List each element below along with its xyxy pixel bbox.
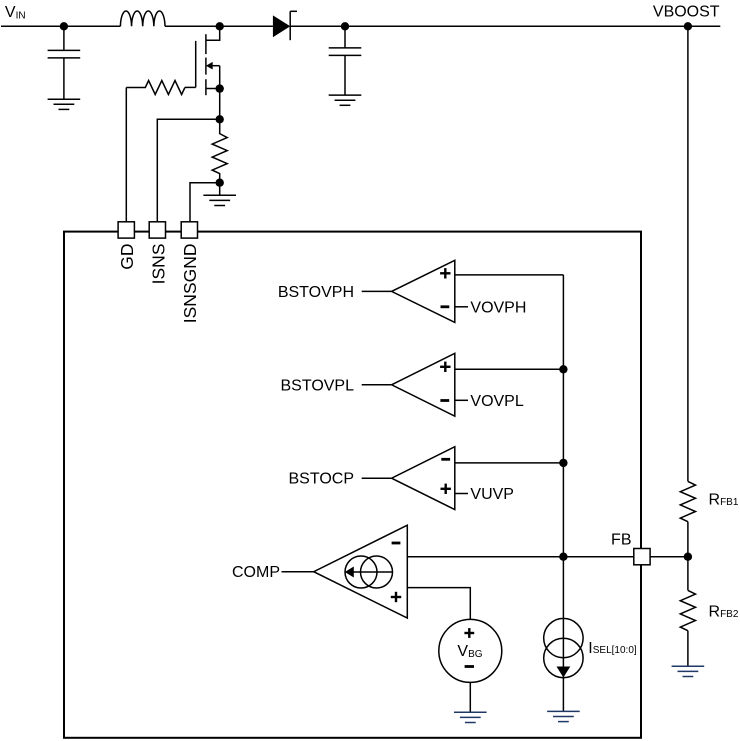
ground sense resistor [203, 195, 236, 205]
wire VIN input rail [1, 25, 64, 27]
op-amp U2 minus sign [441, 305, 450, 308]
capacitor C1 input [48, 26, 81, 99]
diode D1 [273, 11, 297, 40]
wire RFB1 to FB node [687, 522, 689, 557]
wire BSTOVPH stub [362, 290, 392, 292]
wire FB bus vertical [562, 275, 564, 712]
wire U3 minus input stub [455, 399, 468, 401]
wire U2 plus input to bus [455, 274, 564, 276]
svg-text:VBOOST: VBOOST [653, 3, 720, 20]
wire inductor to switch node [165, 25, 220, 27]
junction output cap node [341, 22, 349, 30]
op-amp U2 comparator BSTOVPH [392, 260, 455, 322]
pin ISNSGND [181, 222, 197, 238]
pin GD [118, 222, 134, 238]
wire rail to inductor [64, 25, 121, 27]
wire output cap node to VBOOST [345, 25, 688, 27]
wire U4 plus input stub [455, 493, 468, 495]
svg-text:BSTOVPL: BSTOVPL [280, 377, 354, 394]
op-amp U4 minus sign [441, 458, 450, 461]
wire U3 plus input to bus [455, 368, 564, 370]
wire VBOOST stub right [688, 25, 720, 27]
ground ISEL navy [547, 711, 580, 721]
svg-text:ISNS: ISNS [148, 244, 168, 285]
IC boundary box U1 [64, 232, 641, 738]
junction U3 input on bus [559, 365, 567, 373]
svg-text:VOVPH: VOVPH [470, 299, 526, 316]
transistor Q1 NMOS [185, 26, 220, 95]
junction switch node [216, 22, 224, 30]
wire switch node to diode [220, 25, 273, 27]
pin ISNS [149, 222, 165, 238]
wire U5 minus input to FB pin [407, 556, 634, 558]
ground RFB2 navy [672, 666, 705, 676]
svg-text:ISNSGND: ISNSGND [180, 244, 200, 324]
VBG minus sign [465, 665, 474, 668]
current source arrow in U5 [350, 571, 393, 573]
current source ISEL bottom circle [544, 638, 583, 677]
wire U5 plus input to VBG [407, 588, 470, 620]
junction sense resistor bottom [216, 179, 224, 187]
ground input cap [48, 99, 81, 109]
svg-text:BSTOCP: BSTOCP [289, 471, 355, 488]
transistor Q1 body arrow [206, 62, 213, 70]
wire ISNSGND pin to sense node [190, 183, 220, 222]
current source ISEL arrow [557, 667, 571, 678]
wire diode to output cap node [290, 25, 345, 27]
resistor sense [212, 119, 227, 182]
resistor RFB1 [680, 481, 695, 521]
capacitor C2 output [329, 26, 362, 95]
wire VBG to ground [469, 682, 471, 712]
op-amp U2 plus sign [440, 268, 450, 278]
wire BSTOCP stub [362, 477, 392, 479]
wire U4 minus input to bus [455, 462, 564, 464]
svg-text:COMP: COMP [232, 564, 280, 581]
svg-text:VUVP: VUVP [470, 486, 514, 503]
junction ISNS node [216, 115, 224, 123]
junction Q1 source node [216, 84, 224, 92]
wire COMP stub [282, 571, 314, 573]
current source symbol in U5 left circle [345, 556, 377, 588]
wire VBOOST to RFB1 [687, 26, 689, 481]
junction feedback divider node [684, 553, 692, 561]
op-amp U4 comparator BSTOCP [392, 447, 455, 510]
voltage source VBG [439, 619, 502, 682]
wire FB pin to divider [650, 556, 688, 558]
op-amp U5 plus sign [391, 592, 401, 602]
resistor gate [126, 81, 185, 95]
VBG plus sign [464, 628, 474, 638]
op-amp U3 plus sign [440, 362, 450, 372]
op-amp U3 comparator BSTOVPL [392, 353, 455, 416]
wire Q1 body-source down to ISNS node [219, 66, 221, 120]
op-amp U4 plus sign [441, 484, 451, 494]
junction VBOOST node [684, 22, 692, 30]
wire RFB2 to ground [687, 631, 689, 667]
wire GD pin to gate resistor [125, 88, 127, 222]
inductor L1 [120, 11, 165, 26]
svg-text:GD: GD [117, 244, 137, 270]
svg-text:BSTOVPH: BSTOVPH [278, 284, 354, 301]
wire BSTOVPL stub [362, 384, 392, 386]
wire FB node to RFB2 [687, 557, 689, 591]
wire sense node to ground [219, 183, 221, 196]
junction FB node on bus [559, 553, 567, 561]
op-amp U3 minus sign [440, 399, 449, 402]
svg-text:FB: FB [611, 532, 631, 549]
current source symbol in U5 right circle [361, 556, 393, 588]
pin FB [634, 549, 650, 565]
op-amp U5 error amplifier gm [314, 525, 408, 618]
svg-text:VOVPL: VOVPL [470, 393, 523, 410]
resistor RFB2 [680, 590, 695, 630]
wire ISNS node to ISNS pin [157, 119, 219, 222]
junction U4 input on bus [559, 459, 567, 467]
junction input cap node [60, 22, 68, 30]
op-amp U5 minus sign [392, 542, 401, 545]
ground output cap [329, 95, 362, 105]
ground VBG navy [454, 712, 487, 722]
wire U2 minus input stub [455, 306, 468, 308]
current source ISEL top circle [544, 618, 583, 657]
